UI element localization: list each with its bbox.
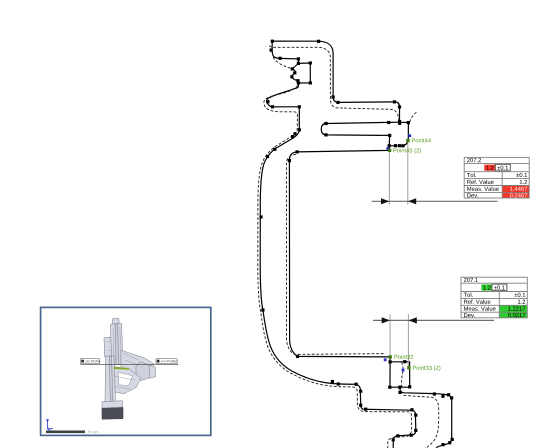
dimension line 1 (to box 207.2) bbox=[372, 201, 498, 320]
inset scale text bbox=[88, 431, 99, 434]
axes triad bbox=[48, 421, 54, 432]
nominal top-right arc down to slot corner bbox=[319, 41, 400, 122]
part body bbox=[102, 318, 156, 414]
inset label text right bbox=[161, 360, 178, 362]
nominal bottom-right contour bbox=[400, 387, 452, 448]
green nominal point markers bbox=[388, 139, 411, 370]
nominal lower rectangle with Point32 / Point33 bbox=[390, 357, 410, 387]
extension lines set 2 bbox=[389, 314, 391, 355]
right mini label bbox=[156, 359, 177, 364]
scale bar bbox=[46, 431, 85, 434]
nominal profile outer contour (top hook, small rectangle, notch, left column, bottom-left step) bbox=[260, 41, 452, 448]
left mini label bbox=[81, 359, 100, 364]
dashed top edge and right vertical bbox=[269, 45, 344, 108]
dashed inner column bbox=[286, 154, 385, 354]
dashed diagonal near slot right end bbox=[410, 112, 417, 123]
inset label text left bbox=[85, 360, 100, 362]
point label Point44 bbox=[412, 138, 431, 142]
callout box 207.1 bbox=[460, 304, 462, 306]
dashed hook, zigzag, notch, left column, bottom steps bbox=[258, 57, 412, 448]
inner detail lines bbox=[107, 327, 139, 389]
blue actual-point markers bbox=[384, 134, 411, 371]
nominal horizontal slot with rounded left cap bbox=[321, 122, 399, 150]
dimension line 2 (to box 207.1) bbox=[373, 319, 494, 321]
green section highlight bbox=[114, 367, 130, 370]
foot dark base bbox=[102, 407, 123, 419]
measurement point dots (nominal vertices) bbox=[259, 40, 453, 447]
actual measured contour (dashed) bbox=[258, 45, 439, 448]
point label Point32 bbox=[394, 355, 413, 359]
extension lines (gray) set 1 bbox=[389, 143, 408, 366]
nominal long horizontal to Point45 and inner left column bbox=[289, 150, 389, 357]
point label Point33 (2) bbox=[413, 366, 441, 371]
nominal edge from slot junction to Point44 and jog left bbox=[389, 122, 408, 146]
section leader line bbox=[81, 364, 179, 366]
dimension arrows set 1 bbox=[381, 198, 417, 323]
3D part inset window frame bbox=[41, 307, 211, 435]
callout box 207.2 bbox=[463, 185, 465, 187]
dimension arrows set 2 bbox=[382, 317, 390, 323]
nominal bottom-left step down to bottom edge bbox=[356, 384, 416, 448]
nominal wavy left edge of small rectangle bbox=[292, 63, 299, 83]
dashed actual at bottom-right (large deviation) bbox=[404, 395, 439, 448]
dashed wiggle inside lower rectangle bbox=[401, 362, 403, 387]
point label Point45 (2) bbox=[393, 148, 421, 153]
